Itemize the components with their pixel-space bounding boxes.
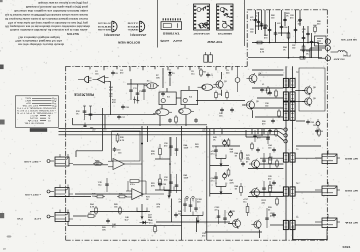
resistor R53 <box>159 174 162 190</box>
wire border stub 12 <box>231 66 233 70</box>
svg-text:LPF: LPF <box>33 217 41 219</box>
capacitor C33 <box>113 147 122 152</box>
svg-text:+ RET LOW: + RET LOW <box>23 160 41 162</box>
wire hang 3 <box>257 129 259 134</box>
wire G1 down <box>159 116 161 126</box>
label vals1 <box>219 112 224 117</box>
wire rail y114 a <box>85 114 106 116</box>
capacitor C14 string <box>83 106 87 120</box>
svg-text:.eulav mho ni era srotsiser ll: .eulav mho ni era srotsiser lla ,detacid… <box>10 28 88 31</box>
wire wd7 <box>72 118 74 125</box>
label stub lbl1 <box>95 71 99 75</box>
label v50 <box>151 151 156 155</box>
capacitor Cm4 <box>241 162 245 167</box>
label v53 <box>151 183 156 187</box>
capacitor C12 string <box>136 84 144 100</box>
capacitor Cd1 <box>253 130 257 142</box>
wire hang 0 <box>213 129 215 134</box>
wire top rail <box>127 83 147 85</box>
wire mr rail2 <box>210 193 232 195</box>
capacitor C44 <box>106 219 110 224</box>
label tr v7 <box>290 15 295 19</box>
wire xf tap 5 <box>295 101 304 103</box>
label C40 label <box>149 219 154 224</box>
capacitor Ct3 <box>283 18 287 23</box>
label vm1 <box>268 144 273 149</box>
wire wd3 <box>318 57 326 59</box>
connector J1 <box>47 154 73 166</box>
label vd9 <box>102 227 107 231</box>
label v64 <box>90 203 95 208</box>
node j142 <box>141 143 143 145</box>
label v44 <box>112 223 117 228</box>
capacitor C97a <box>183 198 187 212</box>
wire tr vertical 8 <box>311 33 313 58</box>
wire IC2 up <box>188 86 190 90</box>
label v71 <box>211 151 217 155</box>
capacitor C53t <box>274 31 278 36</box>
divider line <box>157 0 159 48</box>
label C95 value <box>313 125 317 127</box>
capacitor C53m <box>169 174 173 193</box>
wire border stub 6 <box>167 66 169 70</box>
wire tr vertical 1 <box>261 10 263 30</box>
wire tr rail3 <box>300 49 322 51</box>
wire J1 out <box>73 164 108 166</box>
svg-text:SB EXT SW: SB EXT SW <box>340 38 357 40</box>
resistor R46 <box>240 150 243 162</box>
capacitor C51t <box>260 22 269 27</box>
notes text block <box>5 1 90 45</box>
label R27 label <box>103 129 108 133</box>
wire border stub 4 <box>142 66 144 70</box>
svg-text:REMOTE TML: REMOTE TML <box>23 121 44 123</box>
svg-text:IC3 b: IC3 b <box>130 184 136 186</box>
chassis border bottom <box>66 239 328 241</box>
capacitor C11 string <box>129 84 137 100</box>
corner mark <box>3 249 6 251</box>
svg-text:eulav lanimon detacidni era se: eulav lanimon detacidni era segatlov dna… <box>14 9 88 12</box>
wire bus x102 <box>102 108 104 151</box>
wire rail y114 drop <box>104 115 106 129</box>
capacitor C54t <box>280 25 289 30</box>
node n4 <box>288 57 290 59</box>
wire wm4 <box>241 152 243 158</box>
svg-text:4.7K: 4.7K <box>120 139 125 142</box>
wire stub c11 <box>130 79 132 84</box>
capacitor C58t <box>254 18 258 23</box>
resistor Rm1 <box>276 159 279 168</box>
wire bus line 0 <box>73 124 208 126</box>
wire x171 down <box>171 199 173 223</box>
wire J13 up wire <box>326 229 328 240</box>
resistor R65 <box>119 206 122 215</box>
svg-text:4.7K: 4.7K <box>260 50 265 53</box>
resistor R-fb2 <box>128 180 146 194</box>
transistor Q22 <box>249 187 260 198</box>
wire Q3 c <box>221 72 223 79</box>
resistor R61b <box>275 89 278 98</box>
svg-text:draob tiucric detnirp eht no: draob tiucric detnirp eht no <box>17 43 64 46</box>
legend box <box>15 96 58 128</box>
svg-text:DER: DER <box>344 189 352 191</box>
label vd17 <box>109 86 114 91</box>
wire xf tap y75 <box>258 74 283 76</box>
svg-text:weiV: weiV <box>172 39 182 41</box>
svg-text:47K: 47K <box>151 152 155 155</box>
resistor R15 <box>175 115 178 124</box>
label v51 <box>164 143 169 147</box>
svg-text:RETTIME: RETTIME <box>98 30 112 32</box>
divider line 2 <box>244 0 246 46</box>
wire mid rail1 <box>155 158 170 160</box>
transistor Q5 <box>244 100 260 111</box>
label vt2 <box>286 13 291 17</box>
capacitor Cd5 <box>174 213 178 218</box>
capacitor Cm1 <box>272 148 276 153</box>
label R25 label <box>92 194 97 198</box>
wire Q17 up <box>141 204 143 212</box>
capacitor C54m <box>175 174 179 193</box>
wire IC1 up <box>166 88 168 92</box>
wire gate out down <box>110 82 112 115</box>
capacitor C110 <box>265 208 269 228</box>
transformer T6 <box>283 187 295 196</box>
capacitor C81a <box>262 153 266 168</box>
wire border stub 7 <box>177 66 179 69</box>
cap CE4 <box>316 119 320 128</box>
label vm5 <box>246 159 251 163</box>
label DIP view <box>207 40 223 44</box>
capacitor CE2 <box>223 172 227 180</box>
transformer T2 <box>283 92 295 101</box>
label R28 label <box>96 161 101 165</box>
wire st rail1 <box>248 168 283 170</box>
resistor R47b <box>240 183 243 196</box>
svg-text:RA: RA <box>344 221 352 224</box>
label vd3 <box>178 210 183 215</box>
wire wm3 <box>196 218 198 233</box>
label vd5 <box>250 29 255 33</box>
label C35 label <box>98 182 103 186</box>
transistor Q8 <box>302 85 316 95</box>
wire xf bus a <box>285 66 287 240</box>
capacitor Cd3 <box>206 73 213 78</box>
svg-text:10K: 10K <box>230 151 234 153</box>
capacitor C41 <box>260 88 269 93</box>
wire bus line 1 <box>59 128 288 131</box>
test point TP4 <box>192 196 194 201</box>
capacitor C63b <box>268 129 272 134</box>
wire tr y26 <box>255 25 268 27</box>
wire d8 in <box>181 215 194 217</box>
capacitor Cm2 <box>272 181 276 186</box>
capacitor C103 <box>217 210 221 224</box>
label v103 <box>215 207 221 211</box>
wire border stub 11 <box>225 66 227 69</box>
label vt1 <box>255 13 260 17</box>
wire bus x170 <box>169 137 171 197</box>
connector J2 <box>47 185 73 197</box>
wire tr vertical 3 <box>275 22 277 43</box>
label vd8 <box>202 233 207 237</box>
label tr v6 <box>271 15 276 19</box>
label tr v1 <box>250 17 255 21</box>
connector P-ant <box>326 56 331 61</box>
wire J1 up <box>75 151 77 157</box>
IC box IC1 <box>159 92 176 105</box>
label v56 <box>195 144 200 148</box>
connector J11 <box>315 150 358 164</box>
wire xf tap 1 <box>257 97 283 99</box>
wire tr x308 <box>307 26 309 43</box>
resistor R21 <box>93 161 103 166</box>
resistor R33 <box>86 213 96 218</box>
wire border stub 8 <box>189 66 191 70</box>
capacitor C19 <box>230 108 234 113</box>
wire xf tap 3 <box>255 116 283 118</box>
wire J13 bottom wire <box>293 239 327 241</box>
wire wd6 <box>261 129 263 136</box>
label vd13 <box>296 72 299 74</box>
chassis border top-right <box>247 9 327 11</box>
wire xf tap 9 <box>260 157 283 159</box>
capacitor Ct2 <box>263 26 267 31</box>
capacitor Ct4 <box>298 18 302 23</box>
wire border stub 5 <box>154 66 156 69</box>
capacitor pair x134 <box>133 97 139 104</box>
label sheet number 0491 <box>343 245 351 249</box>
label v111 <box>262 200 267 204</box>
capacitor C82a <box>262 181 266 196</box>
diode D7 <box>140 221 149 224</box>
connector J3 <box>47 210 73 222</box>
svg-text:TOP VIEW: TOP VIEW <box>207 40 223 44</box>
legend list of external connections <box>16 97 57 124</box>
svg-text:MC145106P: MC145106P <box>193 32 210 35</box>
label v57 <box>202 129 207 133</box>
op-amp IC3b <box>126 184 164 199</box>
svg-text:0491: 0491 <box>343 245 351 249</box>
wire x163 v <box>162 68 164 88</box>
wire wd2 <box>310 47 325 49</box>
label v97 <box>179 199 183 203</box>
transformer T0 (top) <box>204 52 213 62</box>
wire tr vertical 9 <box>318 43 320 58</box>
label stub lbl2 <box>120 69 124 74</box>
transistor Q15 <box>230 218 241 229</box>
transistor Q3 <box>213 79 227 89</box>
wire bot rail <box>205 231 262 233</box>
wire tr vertical 4 <box>281 10 283 36</box>
capacitor C61b <box>268 91 272 96</box>
transistor Q21 <box>249 159 260 170</box>
transistor Q18 <box>251 219 261 229</box>
label vd1 <box>257 135 262 139</box>
transistor Q9 <box>302 96 316 106</box>
node n1 <box>269 42 271 44</box>
resistor R41 <box>154 225 157 234</box>
wire st rail2 <box>248 196 283 198</box>
capacitor C95 <box>306 120 315 125</box>
wire xf tap 7 <box>295 191 321 193</box>
wire Q3 e <box>221 90 223 96</box>
label C33 value <box>118 153 122 155</box>
wire J1 feed <box>76 150 103 152</box>
label PEBL50101E board name <box>73 92 94 96</box>
wire bus x147 <box>147 126 149 142</box>
wire xf bus b <box>292 66 294 240</box>
capacitor C15 <box>161 92 165 97</box>
IC package U-C (side view) <box>161 18 182 29</box>
resistor R95 <box>318 128 321 137</box>
label v101 <box>197 199 203 203</box>
resistor Rt2 <box>298 56 307 59</box>
label Q-A part number <box>104 33 120 35</box>
capacitor C16 string <box>89 106 93 120</box>
label v63 <box>262 121 267 125</box>
resistor R30 <box>116 133 124 143</box>
svg-text:PEBL50101E: PEBL50101E <box>73 92 94 96</box>
label NO ANT <box>332 58 344 61</box>
label v61 <box>262 84 265 86</box>
grommet P1 <box>235 66 240 92</box>
wire J2 out <box>75 193 132 195</box>
wire tr rail1 <box>252 42 319 44</box>
wire hang 4 <box>263 129 265 134</box>
label Q-B part number <box>130 33 146 36</box>
shield box IF amp <box>299 68 325 111</box>
capacitor C72a <box>214 172 218 184</box>
wire xf tap 2 <box>250 107 283 109</box>
capacitor C71a <box>214 146 218 156</box>
wire tr vertical 0 <box>255 10 257 34</box>
svg-text:CW: CW <box>17 217 23 219</box>
wire IC1-IC2 <box>176 97 181 99</box>
capacitor C62b <box>271 119 275 124</box>
label v54 <box>164 177 169 181</box>
resistor R51t <box>287 31 290 40</box>
svg-text:SETON: SETON <box>66 32 79 34</box>
resistor R19 <box>226 91 229 100</box>
wire bus x209 <box>209 129 211 197</box>
wire st out2 <box>260 192 284 194</box>
label tr v3 <box>283 46 288 51</box>
chassis border right <box>326 10 328 240</box>
wire IC1 d1 <box>161 105 163 109</box>
transistor Q17 <box>137 208 153 220</box>
transistor package outline Q-B (bottom view) <box>128 21 145 32</box>
wire mid rail2 <box>155 189 170 191</box>
svg-text:ESAB: ESAB <box>98 25 113 28</box>
label v52 <box>184 144 189 149</box>
label vd7 <box>234 221 239 225</box>
svg-text:MIC: MIC <box>24 97 31 99</box>
label v46 <box>235 152 240 157</box>
svg-text:SCN: SCN <box>29 117 38 119</box>
wire tr x265 <box>264 10 266 36</box>
wire hang 2 <box>251 129 253 134</box>
capacitor C57t <box>310 40 314 45</box>
label vd10 <box>125 216 130 221</box>
capacitor CE3 <box>229 210 233 218</box>
label v73 <box>230 148 235 153</box>
wire rail y222 <box>156 221 230 223</box>
capacitor C20 <box>121 105 130 110</box>
label vd6 <box>277 23 281 25</box>
capacitor C6g <box>111 71 118 76</box>
wire xf tap 10 <box>250 191 283 193</box>
wire tr x258 <box>258 12 260 30</box>
wire tr vertical 5 <box>288 26 290 58</box>
resistor R107 <box>246 203 249 216</box>
label vt4 <box>260 49 265 53</box>
label v107 <box>243 199 249 203</box>
capacitor CE1 <box>223 139 227 147</box>
node nt3 <box>307 42 309 44</box>
resistor Rd1 <box>200 68 207 77</box>
svg-text:2SC1815(F): 2SC1815(F) <box>104 33 120 35</box>
label tr v2 <box>264 34 269 39</box>
capacitor C101 <box>189 198 193 212</box>
transistor package outline Q-A (bottom view) <box>98 21 117 32</box>
legend title bar <box>30 128 47 131</box>
wire x170 v2 <box>169 78 171 86</box>
svg-text:10K: 10K <box>156 77 160 79</box>
IC package U-B (top view) <box>217 4 234 30</box>
wire border stub 9 <box>198 66 200 69</box>
resistor R18 <box>215 91 223 100</box>
wire xf tap 4 <box>295 90 304 92</box>
wire tr vertical 7 <box>303 26 305 58</box>
resistor Rd3 <box>251 142 254 151</box>
wire J2 low rail <box>49 196 91 198</box>
transformer T7 <box>283 220 295 229</box>
svg-text:eht rof margaid citamehcs sihT: eht rof margaid citamehcs sihT <box>14 39 62 42</box>
resistor R82a <box>269 181 272 196</box>
label vd18 <box>109 94 114 98</box>
wire J3 down <box>67 222 69 226</box>
capacitor Ct5 <box>306 32 310 37</box>
wire xf tap 0 <box>252 87 283 89</box>
resistor Rt1 <box>255 41 264 44</box>
label tr v5 <box>306 51 311 55</box>
svg-text:47K: 47K <box>151 184 155 187</box>
svg-text:10K: 10K <box>92 196 96 198</box>
transistor Q14 <box>216 183 226 195</box>
label U-B part number <box>216 32 231 34</box>
transformer T1 <box>283 78 295 87</box>
switch box SW1 <box>315 36 327 46</box>
resistor R40 <box>267 86 270 95</box>
capacitor C52t <box>268 28 272 33</box>
capacitor C25 on bus <box>83 123 93 130</box>
label v74 <box>230 179 235 184</box>
wire mr rail1 <box>210 165 229 167</box>
resistor R81a <box>269 153 272 168</box>
capacitor Cd2 <box>266 132 270 144</box>
capacitor C18 <box>220 108 224 113</box>
label vd15 <box>296 182 299 185</box>
wire tr y33 <box>278 32 290 34</box>
svg-text:NO ANT: NO ANT <box>332 58 344 61</box>
wire Q5 base <box>242 104 245 106</box>
capacitor Cm3 <box>272 213 276 218</box>
wire border stub 1 <box>103 66 105 70</box>
label v14 <box>76 111 81 115</box>
svg-text:+ RET LOW: + RET LOW <box>24 193 41 195</box>
resistor R25b <box>95 195 105 198</box>
